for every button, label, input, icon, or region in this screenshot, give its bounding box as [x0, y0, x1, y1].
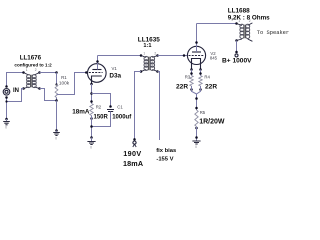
node R1 top — [55, 71, 58, 74]
R1 top pin dot — [55, 83, 57, 85]
wire R2 to ground — [91, 116, 93, 138]
resistor R1 — [56, 73, 58, 85]
ground (V1 cathode) — [90, 136, 93, 139]
V1 plate pin dot — [96, 60, 99, 63]
wire R1 tap to V1 grid riser — [57, 73, 87, 95]
wire T2 secondary top to V2 grid — [158, 55, 188, 57]
ground (R5) — [195, 136, 198, 139]
wire C1 top branch — [92, 94, 111, 107]
R4 top pin dot — [199, 72, 202, 75]
secondary winding — [246, 24, 250, 28]
wire T1 secondary top to R1 — [40, 72, 57, 74]
R3 bottom pin dot — [190, 88, 193, 91]
svg-text:0: 0 — [55, 136, 57, 140]
terminal B+ — [235, 54, 238, 57]
R2 bottom pin dot — [90, 117, 93, 120]
R5 bottom pin dot — [195, 127, 198, 130]
V1 plate — [92, 69, 101, 71]
svg-text:2: 2 — [249, 19, 251, 23]
svg-text:fix bias: fix bias — [156, 148, 176, 154]
tube V1 envelope — [88, 64, 107, 83]
svg-text:2: 2 — [35, 68, 37, 72]
svg-text:-155 V: -155 V — [156, 157, 173, 163]
core — [149, 57, 150, 71]
wire V2 plate to T3 — [197, 23, 237, 25]
svg-text:R4: R4 — [204, 75, 210, 80]
svg-text:1:1: 1:1 — [143, 43, 151, 49]
V1 cathode — [92, 76, 102, 84]
pin dots top — [140, 54, 143, 57]
svg-text:C1: C1 — [117, 104, 123, 109]
node V1 grid — [85, 71, 88, 74]
V2 plate — [192, 51, 201, 53]
node primary return junction — [5, 100, 7, 102]
wire T2 primary bottom to 190V terminal — [135, 72, 142, 140]
R3 top pin dot — [190, 72, 193, 75]
T3 pin 1 dot — [235, 22, 238, 25]
pin hooks — [141, 56, 158, 72]
svg-text:0: 0 — [195, 145, 197, 149]
core — [244, 25, 245, 39]
svg-text:100k: 100k — [59, 80, 70, 85]
pin 3 dot — [22, 87, 25, 90]
svg-text:0: 0 — [5, 126, 7, 130]
node 190V terminal dot — [133, 138, 136, 141]
capacitor C1 — [107, 110, 114, 112]
wire T3 primary bottom to B+ — [236, 41, 238, 53]
wire T2 secondary bottom to fix bias — [158, 72, 160, 141]
ground (input) — [5, 118, 8, 121]
resistor R3 — [190, 76, 193, 87]
svg-text:B+ 1000V: B+ 1000V — [222, 58, 252, 65]
terminal 190V supply — [133, 141, 136, 144]
input connector J1 IN — [3, 89, 10, 96]
node cathode / C1 branch — [90, 92, 93, 95]
pin 4 dot — [38, 87, 41, 90]
svg-text:845: 845 — [210, 55, 218, 60]
resistor R5 — [195, 110, 198, 127]
svg-text:22R: 22R — [176, 83, 188, 90]
V2 grid dashes — [189, 55, 205, 57]
primary winding — [144, 56, 148, 60]
secondary winding — [32, 75, 36, 79]
svg-text:LL1676: LL1676 — [20, 55, 42, 62]
svg-text:18mA: 18mA — [72, 109, 90, 116]
transformer T3 LL1688 — [235, 19, 252, 42]
svg-text:R5: R5 — [200, 110, 206, 115]
ground (R1 / T1 secondary) — [55, 129, 58, 132]
pin hooks — [24, 73, 40, 89]
wire R3 R4 join — [192, 86, 201, 94]
wire IN riser to T1 primary top — [7, 73, 24, 87]
svg-text:1000uf: 1000uf — [112, 114, 132, 120]
R5 top pin dot — [195, 107, 198, 110]
svg-text:190V: 190V — [123, 149, 141, 158]
svg-text:configured to 1:2: configured to 1:2 — [14, 62, 52, 67]
V2 plate pin dot — [195, 41, 198, 44]
C1 top pin dot — [109, 105, 112, 108]
svg-text:22R: 22R — [205, 83, 217, 90]
svg-text:1: 1 — [238, 19, 240, 23]
R4 bottom pin dot — [199, 88, 202, 91]
primary winding — [240, 24, 244, 28]
pin dots bottom — [140, 70, 143, 73]
transformer T2 LL1635 — [140, 52, 159, 73]
wire T1 secondary bottom to R1 bottom rail — [40, 89, 57, 101]
svg-text:V1: V1 — [112, 66, 118, 71]
node cathode return junction — [195, 97, 198, 100]
pin 1 dot — [22, 71, 25, 74]
T3 pin 3 dot — [235, 39, 238, 42]
wire V1 cathode down — [91, 84, 93, 104]
wire V1 plate to T2 primary top — [98, 55, 142, 57]
wire filament legs — [192, 70, 201, 76]
svg-text:LL1688: LL1688 — [228, 7, 250, 14]
V2 filament pin dots — [190, 68, 193, 71]
svg-text:18mA: 18mA — [123, 159, 143, 168]
V1 cathode pin dot — [90, 83, 93, 86]
svg-text:150R: 150R — [94, 114, 109, 120]
wire to R5 — [196, 94, 198, 110]
primary winding — [27, 75, 31, 79]
node R2 bottom junction — [90, 125, 93, 128]
V2 filament — [192, 59, 201, 70]
secondary winding — [150, 56, 154, 60]
svg-text:1: 1 — [143, 52, 145, 56]
svg-text:0: 0 — [90, 145, 92, 149]
wire R5 to ground — [196, 127, 198, 142]
wire rail to ground — [56, 101, 58, 131]
svg-text:R1: R1 — [61, 75, 67, 80]
svg-text:2: 2 — [154, 52, 156, 56]
svg-text:To Speaker: To Speaker — [257, 30, 289, 36]
core — [31, 75, 32, 88]
svg-text:R2: R2 — [96, 105, 102, 110]
tube V2 envelope — [187, 46, 205, 64]
svg-text:D3a: D3a — [109, 73, 121, 80]
R2 top pin dot — [90, 100, 93, 103]
resistor R2 — [90, 104, 93, 116]
svg-text:IN: IN — [13, 88, 19, 94]
node V2 grid — [183, 54, 186, 57]
node R1 bottom rail — [55, 99, 58, 102]
V1 grid dashes — [89, 72, 103, 74]
svg-text:1R/20W: 1R/20W — [199, 119, 225, 126]
resistor R4 — [199, 76, 202, 87]
node B+ terminal dot — [235, 51, 238, 54]
svg-text:1: 1 — [26, 68, 28, 72]
pin 2 dot — [38, 71, 41, 74]
transformer T1 LL1676 — [22, 68, 41, 90]
wire T1 primary bottom return — [7, 89, 24, 102]
svg-text:R3: R3 — [185, 75, 191, 80]
wire IN jack bottom lead to ground — [6, 98, 8, 120]
